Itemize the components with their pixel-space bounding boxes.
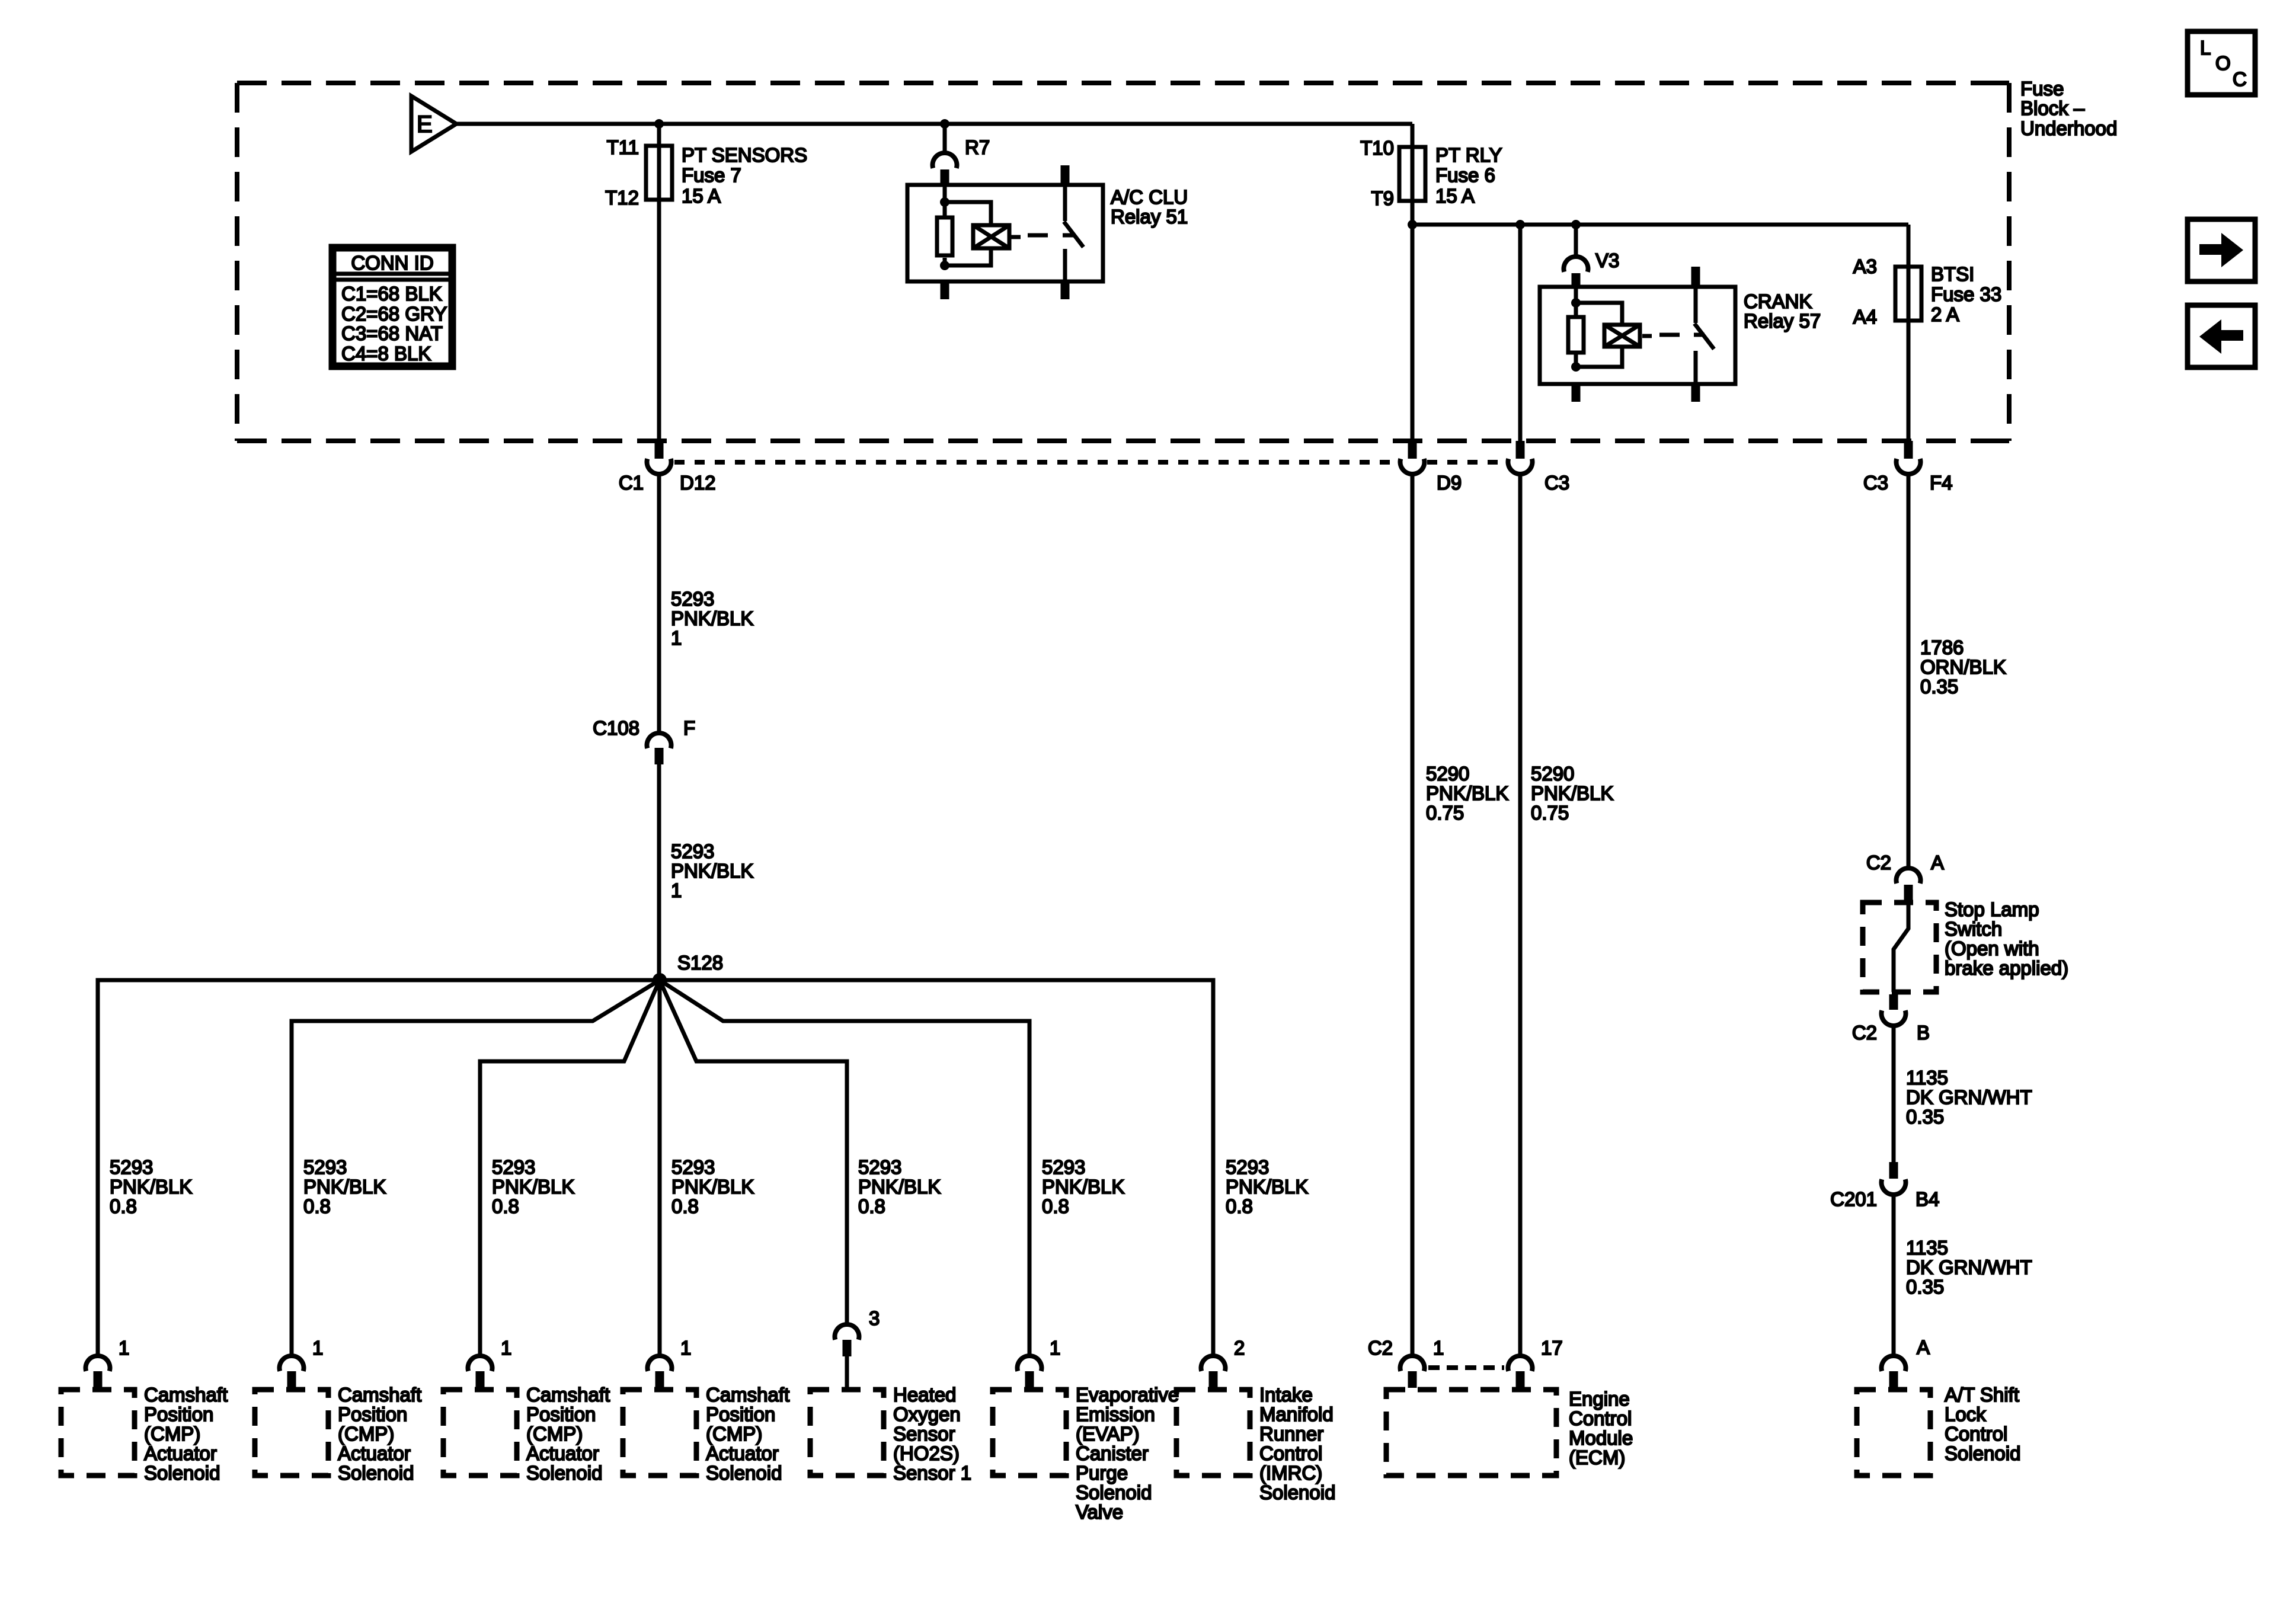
svg-text:C108: C108 [593, 717, 639, 739]
svg-text:17: 17 [1541, 1337, 1563, 1359]
relay contact (switch) [1694, 287, 1698, 323]
svg-text:Camshaft: Camshaft [706, 1384, 789, 1406]
svg-text:(Open with: (Open with [1945, 937, 2039, 959]
svg-text:PT RLY: PT RLY [1435, 144, 1502, 166]
svg-text:5293: 5293 [110, 1156, 153, 1178]
svg-text:PNK/BLK: PNK/BLK [303, 1176, 386, 1198]
svg-text:O: O [2215, 52, 2231, 74]
LOC reference icon [2188, 31, 2255, 95]
svg-text:L: L [2200, 37, 2211, 59]
svg-text:Lock: Lock [1945, 1403, 1986, 1425]
svg-text:Camshaft: Camshaft [338, 1384, 421, 1406]
relay K51 A/C CLU Relay 51 [907, 165, 1188, 299]
label 1135 DK GRN/WHT 0.35 [1906, 1237, 2032, 1298]
svg-text:Solenoid: Solenoid [144, 1462, 220, 1484]
svg-text:(EVAP): (EVAP) [1076, 1423, 1140, 1445]
wire branch to CMP 2 [292, 980, 660, 1356]
wire: drop to PT RLY fuse [1411, 124, 1415, 147]
svg-text:C2: C2 [1866, 852, 1891, 873]
svg-text:DK GRN/WHT: DK GRN/WHT [1906, 1086, 2032, 1108]
svg-text:V3: V3 [1595, 249, 1619, 271]
svg-text:Position: Position [526, 1403, 596, 1425]
svg-text:PNK/BLK: PNK/BLK [1426, 782, 1508, 804]
relay coil loop and coil symbol [945, 202, 991, 223]
component: EVAP canister purge solenoid valve (dashed box) [993, 1384, 1179, 1523]
svg-text:Solenoid: Solenoid [338, 1462, 414, 1484]
svg-text:1786: 1786 [1920, 636, 1964, 658]
svg-text:Fuse: Fuse [2020, 78, 2064, 100]
junction at T11 fuse tap [654, 119, 664, 129]
connector D9 [1400, 441, 1462, 494]
wire: BTSI to fuse block edge [1907, 321, 1911, 441]
svg-text:1: 1 [1050, 1337, 1060, 1359]
svg-text:1: 1 [119, 1337, 129, 1359]
svg-text:PNK/BLK: PNK/BLK [671, 860, 753, 882]
component: camshaft position (CMP) actuator solenoid 2 (dashed box) [255, 1384, 421, 1484]
wire 1135 DK GRN/WHT 0.35 (to A/T shift lock solenoid) [1892, 1195, 1896, 1356]
svg-text:Purge: Purge [1076, 1462, 1128, 1484]
component: intake manifold runner control (IMRC) solenoid (dashed box) [1176, 1384, 1335, 1503]
wire: drop to C3 [1518, 225, 1523, 441]
label 1786 ORN/BLK 0.35 [1920, 636, 2006, 697]
svg-text:C1: C1 [619, 472, 644, 494]
connector C3 [1508, 441, 1569, 494]
wire: drop to D9 [1411, 225, 1415, 441]
wire 5293 PNK/BLK 1 (C1 D12 to C108) [657, 474, 661, 733]
svg-text:0.35: 0.35 [1920, 676, 1958, 697]
svg-text:PNK/BLK: PNK/BLK [1042, 1176, 1124, 1198]
svg-text:0.8: 0.8 [303, 1195, 331, 1217]
svg-text:(CMP): (CMP) [338, 1423, 394, 1445]
component: camshaft position (CMP) actuator solenoid 4 (dashed box) [623, 1384, 789, 1484]
svg-text:Control: Control [1945, 1423, 2007, 1445]
svg-text:2: 2 [1234, 1337, 1245, 1359]
svg-text:A/T Shift: A/T Shift [1945, 1384, 2019, 1406]
svg-text:0.8: 0.8 [1042, 1195, 1069, 1217]
label 5293 PNK/BLK 0.8 (branch 4) [671, 1156, 754, 1217]
svg-text:Position: Position [144, 1403, 213, 1425]
svg-text:Engine: Engine [1569, 1388, 1630, 1410]
junction at D9 drop [1408, 220, 1417, 229]
svg-text:Evaporative: Evaporative [1076, 1384, 1179, 1406]
wire 1786 ORN/BLK 0.35 (F4 to stop lamp switch) [1907, 474, 1911, 868]
fuse F33 BTSI (Fuse 33, 2 A) [1853, 255, 2002, 328]
connector C1/D12 [619, 441, 716, 494]
wire branch to EVAP valve [660, 980, 1029, 1356]
svg-text:(CMP): (CMP) [706, 1423, 762, 1445]
svg-text:Fuse 6: Fuse 6 [1435, 164, 1495, 186]
svg-text:PNK/BLK: PNK/BLK [492, 1176, 574, 1198]
svg-text:(ECM): (ECM) [1569, 1446, 1625, 1468]
forward arrow icon [2188, 219, 2255, 281]
component: engine control module (ECM) (dashed box) [1386, 1388, 1633, 1476]
svg-text:B4: B4 [1916, 1188, 1939, 1210]
connector pin 1 of CMP actuator solenoid 1 [86, 1337, 130, 1388]
svg-text:Actuator: Actuator [526, 1442, 599, 1464]
svg-text:Switch: Switch [1945, 918, 2002, 940]
junction at A/C relay tap [940, 119, 949, 129]
svg-text:R7: R7 [965, 136, 990, 158]
label 5290 PNK/BLK 0.75 [1531, 763, 1613, 824]
svg-text:CONN ID: CONN ID [351, 252, 433, 274]
svg-text:Canister: Canister [1076, 1442, 1149, 1464]
svg-text:C4=8 BLK: C4=8 BLK [341, 343, 431, 364]
junction at crank relay tap [1571, 220, 1581, 229]
relay K57 CRANK Relay 57 [1540, 267, 1821, 402]
svg-text:F: F [683, 717, 695, 739]
svg-text:0.75: 0.75 [1531, 802, 1569, 824]
svg-text:T9: T9 [1371, 187, 1394, 209]
wire: T9 to junction and feed bus to BTSI [1411, 201, 1415, 225]
connector cavity V3 [1564, 225, 1620, 287]
wire: main feed bus from E to T10 drop [456, 122, 1412, 126]
svg-text:5290: 5290 [1426, 763, 1469, 785]
svg-text:Control: Control [1259, 1442, 1322, 1464]
svg-text:C2: C2 [1368, 1337, 1393, 1359]
svg-text:1135: 1135 [1906, 1067, 1948, 1089]
resistor (relay coil suppression) [943, 202, 947, 216]
svg-text:0.75: 0.75 [1426, 802, 1464, 824]
connector pin 1 of EVAP canister purge solenoid valve [1018, 1337, 1061, 1388]
relay pin stubs [941, 281, 949, 299]
svg-text:Valve: Valve [1076, 1501, 1123, 1523]
svg-text:E: E [417, 111, 433, 137]
svg-text:PNK/BLK: PNK/BLK [1226, 1176, 1308, 1198]
component: heated oxygen sensor (HO2S) sensor 1 (dashed box) [810, 1384, 971, 1484]
svg-text:1: 1 [501, 1337, 511, 1359]
svg-text:0.35: 0.35 [1906, 1276, 1944, 1298]
label 5293 PNK/BLK 1 [671, 588, 753, 649]
svg-text:1: 1 [671, 879, 682, 901]
svg-text:5293: 5293 [492, 1156, 535, 1178]
svg-text:(CMP): (CMP) [526, 1423, 583, 1445]
node E (power feed triangle) [411, 96, 456, 152]
svg-text:1: 1 [671, 627, 682, 649]
junction at C3 drop [1515, 220, 1525, 229]
svg-text:2 A: 2 A [1931, 303, 1959, 325]
svg-text:C3=68 NAT: C3=68 NAT [341, 322, 443, 344]
connector pin 3 of HO2S sensor 1 [835, 1307, 880, 1390]
connector C201 pin B4 [1830, 1162, 1939, 1210]
wire 1135 DK GRN/WHT 0.35 (to C201) [1892, 1026, 1896, 1162]
svg-text:5293: 5293 [1042, 1156, 1085, 1178]
label 1135 DK GRN/WHT 0.35 [1906, 1067, 2032, 1128]
svg-text:Actuator: Actuator [144, 1442, 217, 1464]
svg-text:PNK/BLK: PNK/BLK [1531, 782, 1613, 804]
svg-text:0.8: 0.8 [671, 1195, 699, 1217]
svg-text:C2: C2 [1852, 1022, 1877, 1044]
label 5293 PNK/BLK 1 [671, 840, 753, 901]
svg-text:5293: 5293 [858, 1156, 901, 1178]
svg-text:15 A: 15 A [682, 185, 721, 207]
svg-text:C: C [2233, 68, 2247, 90]
svg-text:Sensor 1: Sensor 1 [893, 1462, 971, 1484]
svg-text:0.8: 0.8 [110, 1195, 137, 1217]
svg-text:1135: 1135 [1906, 1237, 1948, 1259]
component: camshaft position (CMP) actuator solenoid 3 (dashed box) [443, 1384, 610, 1484]
svg-text:1: 1 [1433, 1337, 1444, 1359]
svg-text:Camshaft: Camshaft [144, 1384, 228, 1406]
relay contact (switch) [1063, 185, 1067, 221]
svg-text:Stop Lamp: Stop Lamp [1945, 898, 2039, 920]
svg-text:A3: A3 [1853, 255, 1877, 277]
svg-text:Solenoid: Solenoid [1259, 1481, 1335, 1503]
svg-text:5293: 5293 [671, 588, 714, 610]
svg-text:Emission: Emission [1076, 1403, 1155, 1425]
connector pin 1 of CMP actuator solenoid 3 [468, 1337, 511, 1388]
svg-text:5293: 5293 [671, 840, 714, 862]
svg-text:Module: Module [1569, 1427, 1633, 1449]
svg-text:Solenoid: Solenoid [1945, 1442, 2020, 1464]
svg-text:PNK/BLK: PNK/BLK [110, 1176, 192, 1198]
wire: fuse T12 down to fuse block edge [657, 200, 661, 441]
svg-text:A: A [1931, 852, 1944, 873]
back arrow icon [2188, 305, 2255, 367]
switch S: stop lamp switch (dashed box) [1863, 898, 2068, 992]
svg-text:Relay 57: Relay 57 [1744, 310, 1821, 332]
label 5293 PNK/BLK 0.8 (branch 6) [1042, 1156, 1124, 1217]
wire 5293 PNK/BLK 1 (C108 to S128) [657, 764, 661, 980]
svg-text:Fuse 7: Fuse 7 [682, 164, 741, 186]
fuse F7 PT SENSORS (Fuse 7, 15 A) [605, 136, 807, 209]
svg-text:Sensor: Sensor [893, 1423, 955, 1445]
svg-text:1: 1 [680, 1337, 691, 1359]
splice S128 [653, 973, 667, 987]
connector pin 17 of ECM [1508, 1337, 1563, 1388]
svg-text:Block –: Block – [2020, 97, 2085, 119]
wire: drop to PT SENSORS fuse [657, 124, 661, 146]
relay pin stubs [1572, 384, 1581, 402]
svg-text:Heated: Heated [893, 1384, 956, 1406]
connector pin 1 of CMP actuator solenoid 4 [648, 1337, 692, 1388]
connector C3/F4 [1863, 441, 1953, 494]
svg-text:C3: C3 [1863, 472, 1888, 494]
svg-text:15 A: 15 A [1435, 185, 1475, 207]
label 5293 PNK/BLK 0.8 (branch 7) [1226, 1156, 1308, 1217]
svg-text:A4: A4 [1853, 306, 1877, 328]
svg-text:Solenoid: Solenoid [526, 1462, 602, 1484]
fuse block - underhood (dashed boundary) [237, 83, 2009, 441]
connector C2 pin 1 of ECM [1368, 1337, 1444, 1388]
component: camshaft position (CMP) actuator solenoid 1 (dashed box) [61, 1384, 228, 1484]
connector pin A of A/T shift lock control solenoid [1881, 1336, 1930, 1388]
fuse F6 PT RLY (Fuse 6, 15 A) [1360, 137, 1502, 209]
svg-text:brake applied): brake applied) [1945, 957, 2068, 979]
svg-text:A/C CLU: A/C CLU [1111, 186, 1188, 208]
connector C108/F [593, 717, 695, 764]
svg-text:1: 1 [312, 1337, 323, 1359]
wire branch to CMP 1 [98, 980, 660, 1356]
connector pin 1 of CMP actuator solenoid 2 [280, 1337, 324, 1388]
svg-text:CRANK: CRANK [1744, 290, 1812, 312]
connector C2 pin A [1866, 852, 1944, 902]
label 5293 PNK/BLK 0.8 (branch 1) [110, 1156, 192, 1217]
svg-text:BTSI: BTSI [1931, 263, 1974, 285]
svg-text:PT SENSORS: PT SENSORS [682, 144, 807, 166]
svg-text:D9: D9 [1437, 472, 1462, 494]
svg-text:3: 3 [869, 1307, 880, 1329]
svg-text:Underhood: Underhood [2020, 117, 2117, 139]
svg-text:DK GRN/WHT: DK GRN/WHT [1906, 1256, 2032, 1278]
component: A/T shift lock control solenoid (dashed box) [1857, 1384, 2020, 1476]
svg-text:(HO2S): (HO2S) [893, 1442, 960, 1464]
svg-text:0.8: 0.8 [858, 1195, 885, 1217]
dashed link between ECM connector pins [1428, 1365, 1504, 1370]
svg-text:C2=68 GRY: C2=68 GRY [341, 303, 447, 325]
relay coil loop and coil symbol [1576, 303, 1622, 324]
svg-text:Solenoid: Solenoid [706, 1462, 782, 1484]
svg-text:T12: T12 [605, 187, 639, 209]
wire branch to CMP 4 [658, 980, 662, 1356]
label 5293 PNK/BLK 0.8 (branch 5) [858, 1156, 941, 1217]
CONN ID table [331, 246, 454, 368]
wire 5290 PNK/BLK 0.75 (D9 to ECM pin 1) [1411, 474, 1415, 1356]
svg-text:5293: 5293 [1226, 1156, 1269, 1178]
svg-text:T10: T10 [1360, 137, 1394, 159]
svg-text:B: B [1917, 1022, 1930, 1044]
label 5290 PNK/BLK 0.75 [1426, 763, 1508, 824]
svg-text:PNK/BLK: PNK/BLK [858, 1176, 941, 1198]
svg-text:Manifold: Manifold [1259, 1403, 1334, 1425]
coil to contact dashed actuator link [1642, 334, 1652, 338]
connector cavity R7 [933, 124, 990, 185]
svg-text:C201: C201 [1830, 1188, 1877, 1210]
coil to contact dashed actuator link [1011, 235, 1021, 239]
svg-text:C1=68 BLK: C1=68 BLK [341, 283, 442, 305]
svg-text:Actuator: Actuator [706, 1442, 779, 1464]
connector C2 pin B [1852, 994, 1930, 1044]
svg-text:0.35: 0.35 [1906, 1106, 1944, 1128]
svg-text:ORN/BLK: ORN/BLK [1920, 656, 2006, 678]
wire branch to HO2S [660, 980, 847, 1324]
connector pin 2 of IMRC solenoid [1201, 1337, 1245, 1388]
svg-text:Position: Position [338, 1403, 407, 1425]
svg-text:C3: C3 [1544, 472, 1569, 494]
svg-text:0.8: 0.8 [492, 1195, 519, 1217]
svg-text:D12: D12 [680, 472, 716, 494]
svg-text:Fuse 33: Fuse 33 [1931, 283, 2001, 305]
svg-text:Position: Position [706, 1403, 775, 1425]
svg-text:Actuator: Actuator [338, 1442, 411, 1464]
svg-text:5293: 5293 [671, 1156, 715, 1178]
svg-text:PNK/BLK: PNK/BLK [671, 1176, 754, 1198]
svg-text:F4: F4 [1930, 472, 1953, 494]
svg-text:S128: S128 [677, 952, 723, 974]
label 5293 PNK/BLK 0.8 (branch 2) [303, 1156, 386, 1217]
svg-text:Solenoid: Solenoid [1076, 1481, 1152, 1503]
svg-text:0.8: 0.8 [1226, 1195, 1253, 1217]
svg-text:Relay 51: Relay 51 [1111, 206, 1188, 228]
svg-text:(CMP): (CMP) [144, 1423, 200, 1445]
svg-text:Intake: Intake [1259, 1384, 1313, 1406]
svg-text:5293: 5293 [303, 1156, 347, 1178]
resistor (relay coil suppression) [1574, 303, 1578, 315]
svg-text:T11: T11 [607, 136, 639, 158]
label 5293 PNK/BLK 0.8 (branch 3) [492, 1156, 574, 1217]
harness dotted boundary [674, 460, 1397, 465]
svg-text:A: A [1917, 1336, 1930, 1358]
wire branch to IMRC solenoid [660, 980, 1213, 1356]
svg-text:Camshaft: Camshaft [526, 1384, 610, 1406]
svg-text:Runner: Runner [1259, 1423, 1323, 1445]
svg-text:Control: Control [1569, 1407, 1632, 1429]
svg-text:Oxygen: Oxygen [893, 1403, 961, 1425]
wire 5290 PNK/BLK 0.75 (C3 to ECM pin 17) [1518, 474, 1523, 1356]
wire branch to CMP 3 [480, 980, 660, 1356]
svg-text:(IMRC): (IMRC) [1259, 1462, 1322, 1484]
svg-text:PNK/BLK: PNK/BLK [671, 607, 753, 629]
svg-text:5290: 5290 [1531, 763, 1574, 785]
